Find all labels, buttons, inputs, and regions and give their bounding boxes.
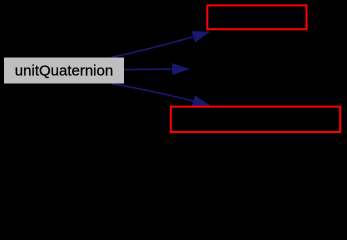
wire: edge unitQuaternion -> top node xyxy=(112,32,210,57)
node top (red, truncated) xyxy=(207,5,306,29)
wire: edge unitQuaternion -> bottom node xyxy=(112,84,209,106)
node bottom (red, truncated) xyxy=(171,107,340,132)
node unitQuaternion xyxy=(4,58,124,84)
wire: edge unitQuaternion -> middle node xyxy=(124,68,189,71)
svg-text:unitQuaternion: unitQuaternion xyxy=(15,63,113,80)
